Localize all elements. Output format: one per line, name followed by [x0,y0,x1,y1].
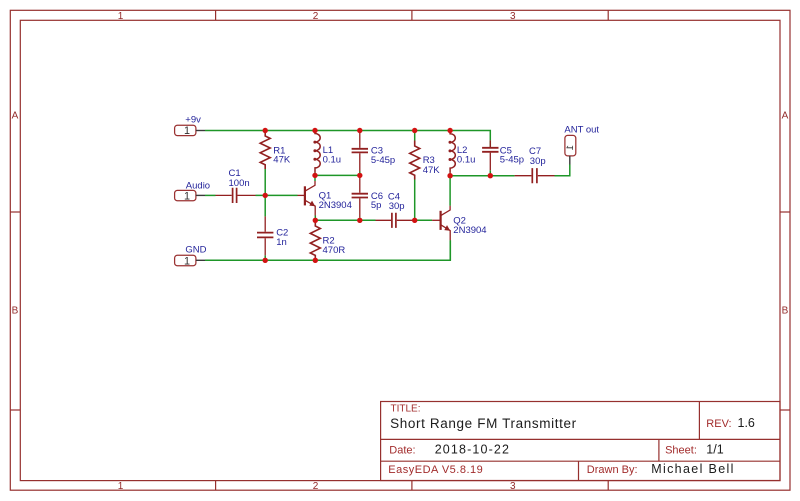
svg-text:Audio: Audio [186,181,210,192]
port ANT out flag [565,135,576,156]
svg-text:+9v: +9v [185,115,201,126]
title block outline [381,402,780,481]
wire C7 to antenna [555,165,570,176]
svg-text:2: 2 [313,11,319,22]
capacitor C3 leads [359,131,361,172]
transistor Q2 base bar [440,211,442,230]
wire R3 top stub [414,131,416,141]
title block divider REV [698,402,700,440]
wire Q2 collector stub [449,176,451,206]
tick left B/C [10,409,20,411]
svg-text:B: B [782,306,789,317]
pin stub +9v [196,130,205,132]
wire C2 bottom to gnd [264,255,266,260]
svg-text:1: 1 [184,125,190,137]
junction C5 bottom [488,173,493,178]
JUNCTION DOTS [263,128,493,263]
COMPONENT SYMBOLS [216,131,555,261]
tick top 2 [411,10,413,20]
svg-text:1n: 1n [276,237,287,248]
svg-text:1/1: 1/1 [706,442,723,456]
transistor Q2 base pin [432,219,441,221]
tick bottom 2 [411,481,413,491]
junction C4/R3/Q2 base [412,218,417,223]
COMPONENT TEXT LABELS [185,115,599,256]
inductor L1 curl joints [313,141,316,144]
wire gnd rail [205,240,450,260]
svg-text:Drawn By:: Drawn By: [587,464,638,476]
junction +9v/L2 [447,128,452,133]
wire node to Q2 base [415,219,432,221]
transistor Q1 emitter arrow [309,201,315,207]
wire audio to Q1 base [256,194,298,196]
tick top 3 [607,10,609,20]
capacitor C7 leads [515,175,555,177]
title block divider Sheet [658,439,660,461]
resistor R1 body [260,131,270,170]
wire mid rail L2 to C7 [450,175,514,177]
transistor Q1 base bar [304,186,306,205]
svg-text:5p: 5p [371,200,382,211]
svg-text:3: 3 [510,11,516,22]
svg-text:30p: 30p [389,201,405,212]
port Audio flag [175,190,196,200]
svg-text:47K: 47K [423,165,441,176]
tick bottom 1 [215,481,217,491]
wire L2 bottom stub [449,173,451,176]
svg-text:1: 1 [565,145,576,150]
wire audio to C2 [264,195,266,216]
svg-text:B: B [12,306,19,317]
port +9v flag [175,125,196,135]
wire L1 bottom stub [314,173,316,176]
junction C3/C6 [357,173,362,178]
svg-text:1: 1 [118,11,124,22]
junction +9v/R1 [263,128,268,133]
svg-text:2N3904: 2N3904 [453,225,486,236]
resistor R2 body [310,220,320,260]
svg-text:47K: 47K [273,155,291,166]
inductor L2 curl joints [449,141,452,144]
capacitor C4 plates [392,213,396,228]
PORTS [175,125,576,265]
junction L2/Q2 collector [447,173,452,178]
pin stub Audio [196,194,205,196]
capacitor C6 plates [352,194,368,198]
junction +9v/L1 [312,128,317,133]
port GND flag [175,255,196,266]
inductor L1 body [315,131,320,173]
svg-text:1: 1 [184,190,190,202]
svg-text:1: 1 [184,255,190,267]
junction gnd/R2 [313,258,318,263]
transistor Q2 emitter arrow [444,225,450,231]
wire audio in left [205,194,216,196]
capacitor C2 leads [264,216,266,255]
svg-text:3: 3 [510,481,516,492]
svg-text:A: A [12,111,19,122]
svg-text:2018-10-22: 2018-10-22 [435,442,510,456]
capacitor C5 plates [482,148,498,152]
tick bottom 3 [607,481,609,491]
junction C6/emitter rail [357,218,362,223]
TITLE BLOCK [381,402,780,481]
junction +9v/C3 [357,128,362,133]
svg-text:Michael Bell: Michael Bell [651,462,735,476]
wire L1 to C3 mid [315,174,360,176]
junction Q1 emitter/R2 [313,218,318,223]
svg-text:1.6: 1.6 [738,416,755,430]
svg-text:A: A [782,111,789,122]
wire C5 bottom stub [489,170,491,175]
capacitor C3 plates [352,149,368,153]
capacitor C7 plates [532,168,537,183]
capacitor C1 plates [233,188,237,203]
title block divider DrawnBy [578,461,580,480]
CIRCUIT WIRES [205,131,570,261]
capacitor C2 plates [257,233,273,238]
capacitor C4 leads [376,219,413,221]
svg-text:5-45p: 5-45p [371,155,395,166]
svg-text:1: 1 [118,481,124,492]
wire emitter rail to C4 [315,219,375,221]
transistor Q2 emitter [441,225,450,240]
svg-text:ANT out: ANT out [564,124,599,135]
svg-text:100n: 100n [229,178,250,189]
resistor R3 body [410,141,420,180]
svg-text:EasyEDA V5.8.19: EasyEDA V5.8.19 [388,464,483,476]
transistor Q1 collector [306,181,316,191]
junction +9v/R3 [412,128,417,133]
svg-text:Short Range FM Transmitter: Short Range FM Transmitter [390,416,577,431]
inductor L2 body [450,131,455,173]
transistor Q1 emitter [306,201,316,216]
svg-text:0.1u: 0.1u [323,154,342,165]
svg-text:2: 2 [313,481,319,492]
wire R1 bottom to audio [264,169,266,195]
pin stub ANT out [569,156,571,165]
wire C5 top stub [489,140,491,148]
svg-text:REV:: REV: [706,418,731,430]
pin stub GND [196,259,205,261]
junction audio/R1/C2 [263,193,268,198]
junction L1/Q1 collector [312,173,317,178]
transistor Q1 base pin [298,194,305,196]
capacitor C5 leads [489,140,491,170]
junction gnd/C2 [263,258,268,263]
capacitor C3 bottom stub green [359,172,361,176]
transistor Q2 collector [441,206,450,216]
title block row line 2 [381,460,780,462]
svg-text:0.1u: 0.1u [457,154,476,165]
title block row line 1 [381,438,780,440]
capacitor C6 leads [359,175,361,217]
svg-text:Sheet:: Sheet: [665,444,697,456]
wire C6 bottom stub [359,217,361,220]
svg-text:GND: GND [185,245,206,256]
wire Q1 emitter stub [314,216,316,221]
svg-text:470R: 470R [323,245,346,256]
svg-text:Date:: Date: [389,444,415,456]
tick left A/B [10,211,20,213]
wire R3 bottom [414,180,416,221]
tick right B/C [780,409,790,411]
capacitor C1 leads [216,194,256,196]
svg-text:30p: 30p [530,156,546,167]
wire Q2 emitter to gnd [449,240,451,260]
wire Q1 collector stub [314,175,316,181]
wire C4 to R3 node [413,219,415,221]
svg-text:2N3904: 2N3904 [319,200,352,211]
wire +9v rail [205,131,490,141]
tick right A/B [780,211,790,213]
tick top 1 [215,10,217,20]
svg-text:TITLE:: TITLE: [391,404,421,415]
svg-text:5-45p: 5-45p [500,155,524,166]
